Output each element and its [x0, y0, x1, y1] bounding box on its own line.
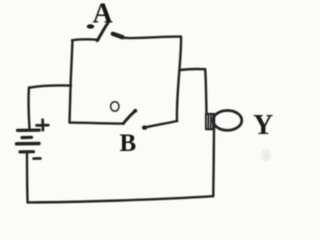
svg-text:B: B: [120, 130, 137, 157]
svg-text:A: A: [93, 0, 114, 29]
paper smudge: [261, 149, 272, 162]
wire right inner vertical: [177, 37, 181, 121]
battery plate long 1: [18, 129, 40, 132]
wire bottom: [28, 196, 214, 202]
switch B blade: [123, 111, 135, 124]
switch A blade: [97, 23, 108, 41]
wire lamp branch horizontal: [180, 68, 205, 71]
battery plate long 2: [17, 142, 40, 146]
lamp base hatch: [208, 114, 213, 129]
wire battery to node: [29, 85, 71, 87]
battery plate short 1: [22, 136, 32, 140]
switch B blade tip dot: [133, 109, 137, 113]
wire battery positive up: [27, 88, 30, 129]
switch B right contact dot: [142, 125, 147, 129]
minus sign: [34, 157, 41, 160]
wire left loop vertical: [70, 41, 73, 123]
switch A pivot dot: [87, 24, 95, 28]
lamp bulb Y: [213, 111, 242, 131]
wire switch B right: [145, 121, 178, 128]
wire lamp branch vertical: [205, 69, 206, 114]
wire switch A left: [72, 39, 99, 40]
wire switch B left: [70, 123, 123, 124]
switch B pivot circle: [111, 102, 119, 111]
wire top to right corner: [121, 37, 182, 39]
svg-text:Y: Y: [253, 110, 273, 141]
plus sign: [37, 120, 49, 131]
battery plate short 2: [20, 150, 34, 153]
wire battery negative stem: [26, 154, 29, 202]
wire lamp down: [212, 130, 215, 196]
switch A right contact: [113, 34, 123, 37]
lamp base: [206, 114, 214, 130]
